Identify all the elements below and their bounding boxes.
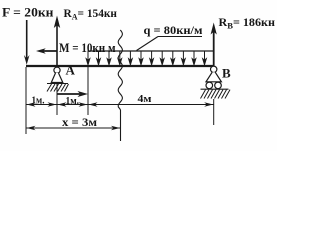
extension line at load start [87, 67, 89, 115]
dimension arrowheads row 1 [27, 102, 214, 106]
support A (pin) [47, 67, 68, 83]
dimension line row 1 [26, 104, 214, 106]
svg-text:x = 3м: x = 3м [62, 117, 97, 129]
moment M arrow [36, 48, 57, 54]
dimension line x = 3м [26, 126, 121, 130]
extension line at B [213, 99, 215, 125]
svg-text:A: A [66, 63, 76, 78]
svg-text:RA= 154кн: RA= 154кн [64, 6, 118, 22]
svg-text:RB= 186кн: RB= 186кн [219, 15, 276, 31]
reaction R_A arrow [54, 16, 60, 66]
svg-text:1м.: 1м. [66, 95, 80, 107]
svg-text:4м: 4м [138, 93, 153, 105]
reaction R_B arrow [211, 23, 217, 66]
beam [26, 65, 215, 67]
label q = 80кн/м with leader [137, 23, 203, 51]
distributed load q: arrows [86, 51, 206, 65]
axis direction arrow at A [57, 91, 88, 97]
force F = 20кн arrow [24, 20, 30, 65]
svg-text:B: B [222, 66, 231, 81]
support B (roller) [201, 66, 229, 89]
distributed load q: top line [88, 50, 215, 52]
svg-text:q = 80кн/м: q = 80кн/м [144, 23, 203, 37]
svg-text:F = 20кн: F = 20кн [2, 4, 54, 19]
svg-text:M = 10кн м: M = 10кн м [59, 40, 116, 55]
support B hatching [201, 90, 231, 99]
section squiggle line at x = 3м [118, 30, 122, 141]
extension line at A [56, 84, 58, 116]
extension line left end [25, 67, 27, 134]
svg-text:1м.: 1м. [32, 94, 45, 106]
support A hatching [47, 84, 69, 92]
